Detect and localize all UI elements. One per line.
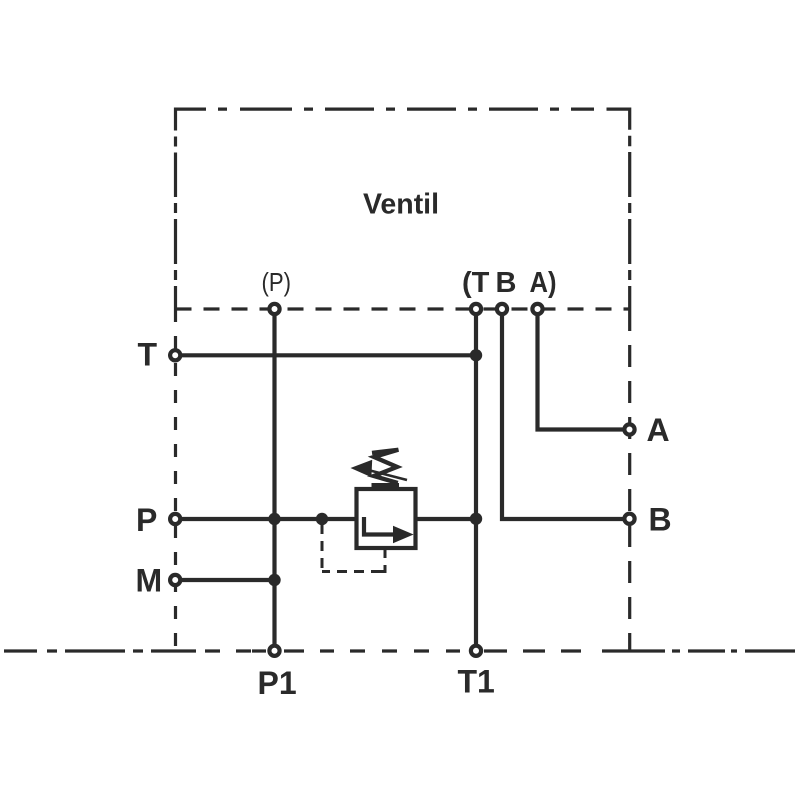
port (T circle [471,304,481,314]
port M circle [170,575,180,585]
junction T line / T1 riser [470,349,482,361]
port B top circle [497,304,507,314]
wire (P) to P1 vertical [272,316,276,644]
relief valve V1 internal arrow head [393,526,414,543]
pilot drain dashed line [322,524,385,573]
port A circle [624,424,634,434]
wire M port to P1 riser [182,578,275,582]
port P1 circle [269,646,279,656]
svg-text:P: P [136,502,157,538]
wire B stub to port B [502,316,623,519]
port T circle [170,350,180,360]
svg-text:B: B [496,267,517,299]
relief valve V1 adjustment arrow shaft [371,471,408,480]
port (P) circle [269,304,279,314]
svg-text:B: B [649,502,672,538]
svg-text:A): A) [530,267,557,299]
junction pilot tap on P line [316,513,328,525]
svg-text:A: A [647,412,670,448]
relief valve V1 adjustment arrow head [351,460,373,478]
mounting face chain line right [602,649,795,652]
valve enclosure left edge upper (chain line) [174,108,177,310]
relief valve V1 spring seat [372,483,400,489]
wire P port to relief valve inlet [182,517,358,521]
valve interface dashed line [176,307,630,310]
mounting face dashed line bottom [205,649,581,652]
wire A stub to port A [538,316,624,430]
junction P line / P1 riser [268,513,280,525]
port T1 circle [471,646,481,656]
junction M line / P1 riser [268,574,280,586]
port P circle [170,514,180,524]
svg-text:M: M [136,563,163,599]
valve enclosure top edge (chain line) [176,107,595,110]
port A) circle [532,304,542,314]
svg-text:(T: (T [462,267,490,299]
wire relief valve outlet to T1 riser [415,517,476,521]
valve enclosure right edge lower (dashed) [628,309,631,651]
relief valve V1 body [357,489,416,548]
relief valve V1 internal flow path [364,517,394,535]
relief valve V1 spring [372,450,398,483]
svg-text:Ventil: Ventil [363,189,439,221]
mounting face chain line left [4,649,196,652]
valve enclosure left edge lower (dashed) [174,309,177,651]
wire T1 riser vertical [474,316,478,644]
valve enclosure right edge upper (chain line) [607,108,630,310]
svg-text:T: T [138,337,158,373]
junction valve outlet / T1 riser [470,513,482,525]
svg-text:P1: P1 [258,665,297,701]
svg-text:T1: T1 [458,664,495,700]
port B circle [624,514,634,524]
wire T port to T1 riser [182,353,477,357]
svg-text:(P): (P) [262,267,292,297]
